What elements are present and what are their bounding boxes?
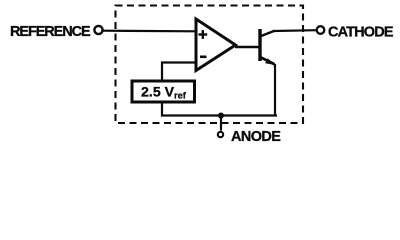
op-amp U1 body xyxy=(196,19,236,71)
terminal ANODE xyxy=(218,132,223,137)
svg-text:CATHODE: CATHODE xyxy=(328,24,394,40)
wire REFERENCE terminal to op-amp + input xyxy=(103,30,196,33)
transistor Q1 xyxy=(258,29,275,65)
op-amp + input marker xyxy=(198,30,207,39)
wire Q1 emitter to anode rail xyxy=(274,64,276,116)
svg-text:ANODE: ANODE xyxy=(231,129,281,145)
wire Vref block to anode rail xyxy=(162,102,277,116)
wire op-amp output to Q1 base xyxy=(235,46,259,48)
terminal REFERENCE xyxy=(94,26,102,34)
functional block boundary (dashed box) xyxy=(116,6,304,124)
svg-text:ref: ref xyxy=(174,90,187,100)
wire Q1 collector to CATHODE terminal xyxy=(274,29,317,32)
wire op-amp - input to Vref block xyxy=(162,63,196,83)
op-amp - input marker xyxy=(200,55,207,58)
terminal CATHODE xyxy=(317,26,325,34)
svg-text:REFERENCE: REFERENCE xyxy=(10,24,91,40)
voltage reference block 2.5 Vref box xyxy=(132,81,195,102)
wire junction down to ANODE terminal xyxy=(220,116,222,131)
svg-text:2.5 V: 2.5 V xyxy=(141,84,175,100)
junction anode node xyxy=(218,113,224,119)
